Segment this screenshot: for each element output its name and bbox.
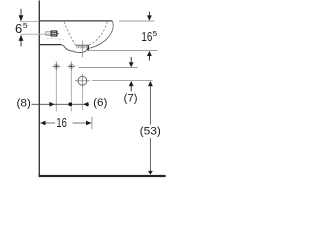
fixing bolt: tip tick: [57, 33, 59, 35]
fixing hole cross right: [67, 62, 75, 71]
dimension line (8)/(6): [32, 103, 90, 105]
svg-text:6: 6: [15, 21, 22, 36]
stub extension line right of 16: [91, 117, 93, 129]
drain hole circle (front view): [78, 76, 87, 85]
inner bowl hidden bottom (dashed): [47, 39, 64, 40]
wall line: [39, 1, 40, 177]
drain axis line: [81, 41, 83, 58]
floor line: [39, 175, 166, 177]
dimension (53) line upper: [149, 86, 151, 124]
extension line from left cross: [55, 71, 57, 112]
svg-text:5: 5: [23, 21, 28, 30]
extension line from right cross: [70, 71, 72, 112]
rim extension line (gray, to 16.5 dim): [119, 20, 154, 22]
basin bottom curve: [61, 45, 74, 52]
fixing hole cross left: [52, 62, 60, 71]
fixing bolt: head part: [51, 31, 57, 36]
svg-text:(7): (7): [124, 92, 138, 104]
siphon cup: [74, 48, 88, 52]
extension line from drain down: [81, 87, 83, 110]
dimension 16 right arrow: [86, 121, 91, 126]
drain fitting top line: [76, 44, 88, 46]
dimension (53) bottom arrow: [148, 171, 153, 175]
dimension (8) arrow: [49, 102, 54, 107]
drain fitting hatching: [77, 46, 86, 48]
apron bottom extension line A: [89, 50, 158, 52]
svg-text:16: 16: [56, 115, 66, 130]
basin front step: [87, 45, 89, 51]
dimension 16.5 bottom arrow: [147, 51, 152, 56]
basin bottom shelf (left): [40, 44, 61, 46]
chain dimension dot: [68, 102, 72, 106]
dimension 6.5 top extension line: [20, 21, 39, 23]
dimension 16 left arrow: [40, 121, 45, 126]
dimension 6.5 bottom arrow: [19, 35, 24, 41]
basin outer front profile: [89, 21, 113, 48]
inner bowl hidden contour left (dashed): [64, 22, 76, 45]
dimension 6.5 top arrow: [20, 9, 22, 16]
dimension 16.5 top arrow: [148, 12, 150, 16]
dimension 6.5 bottom extension / bolt axis line: [21, 33, 46, 35]
dimension (7) top arrow: [130, 57, 132, 62]
svg-text:(6): (6): [93, 97, 107, 109]
dimension (7) bottom arrow: [129, 81, 134, 86]
fixing bolt: threaded part: [46, 32, 51, 36]
drain hole crosshair: [75, 80, 90, 82]
dimension 16 line: [40, 122, 91, 124]
drain level extension line C: [92, 80, 153, 82]
dimension (53) top arrow: [148, 81, 153, 86]
svg-text:16: 16: [141, 29, 152, 44]
svg-text:(8): (8): [17, 97, 31, 109]
inner bowl hidden contour right (dashed): [89, 22, 108, 45]
dimension (53) line lower: [149, 138, 151, 171]
washbasin rim top edge: [39, 20, 112, 22]
dimension (6) arrow: [83, 102, 88, 107]
supply level extension line B: [79, 67, 138, 69]
svg-text:(53): (53): [140, 125, 161, 137]
svg-text:5: 5: [153, 29, 158, 38]
